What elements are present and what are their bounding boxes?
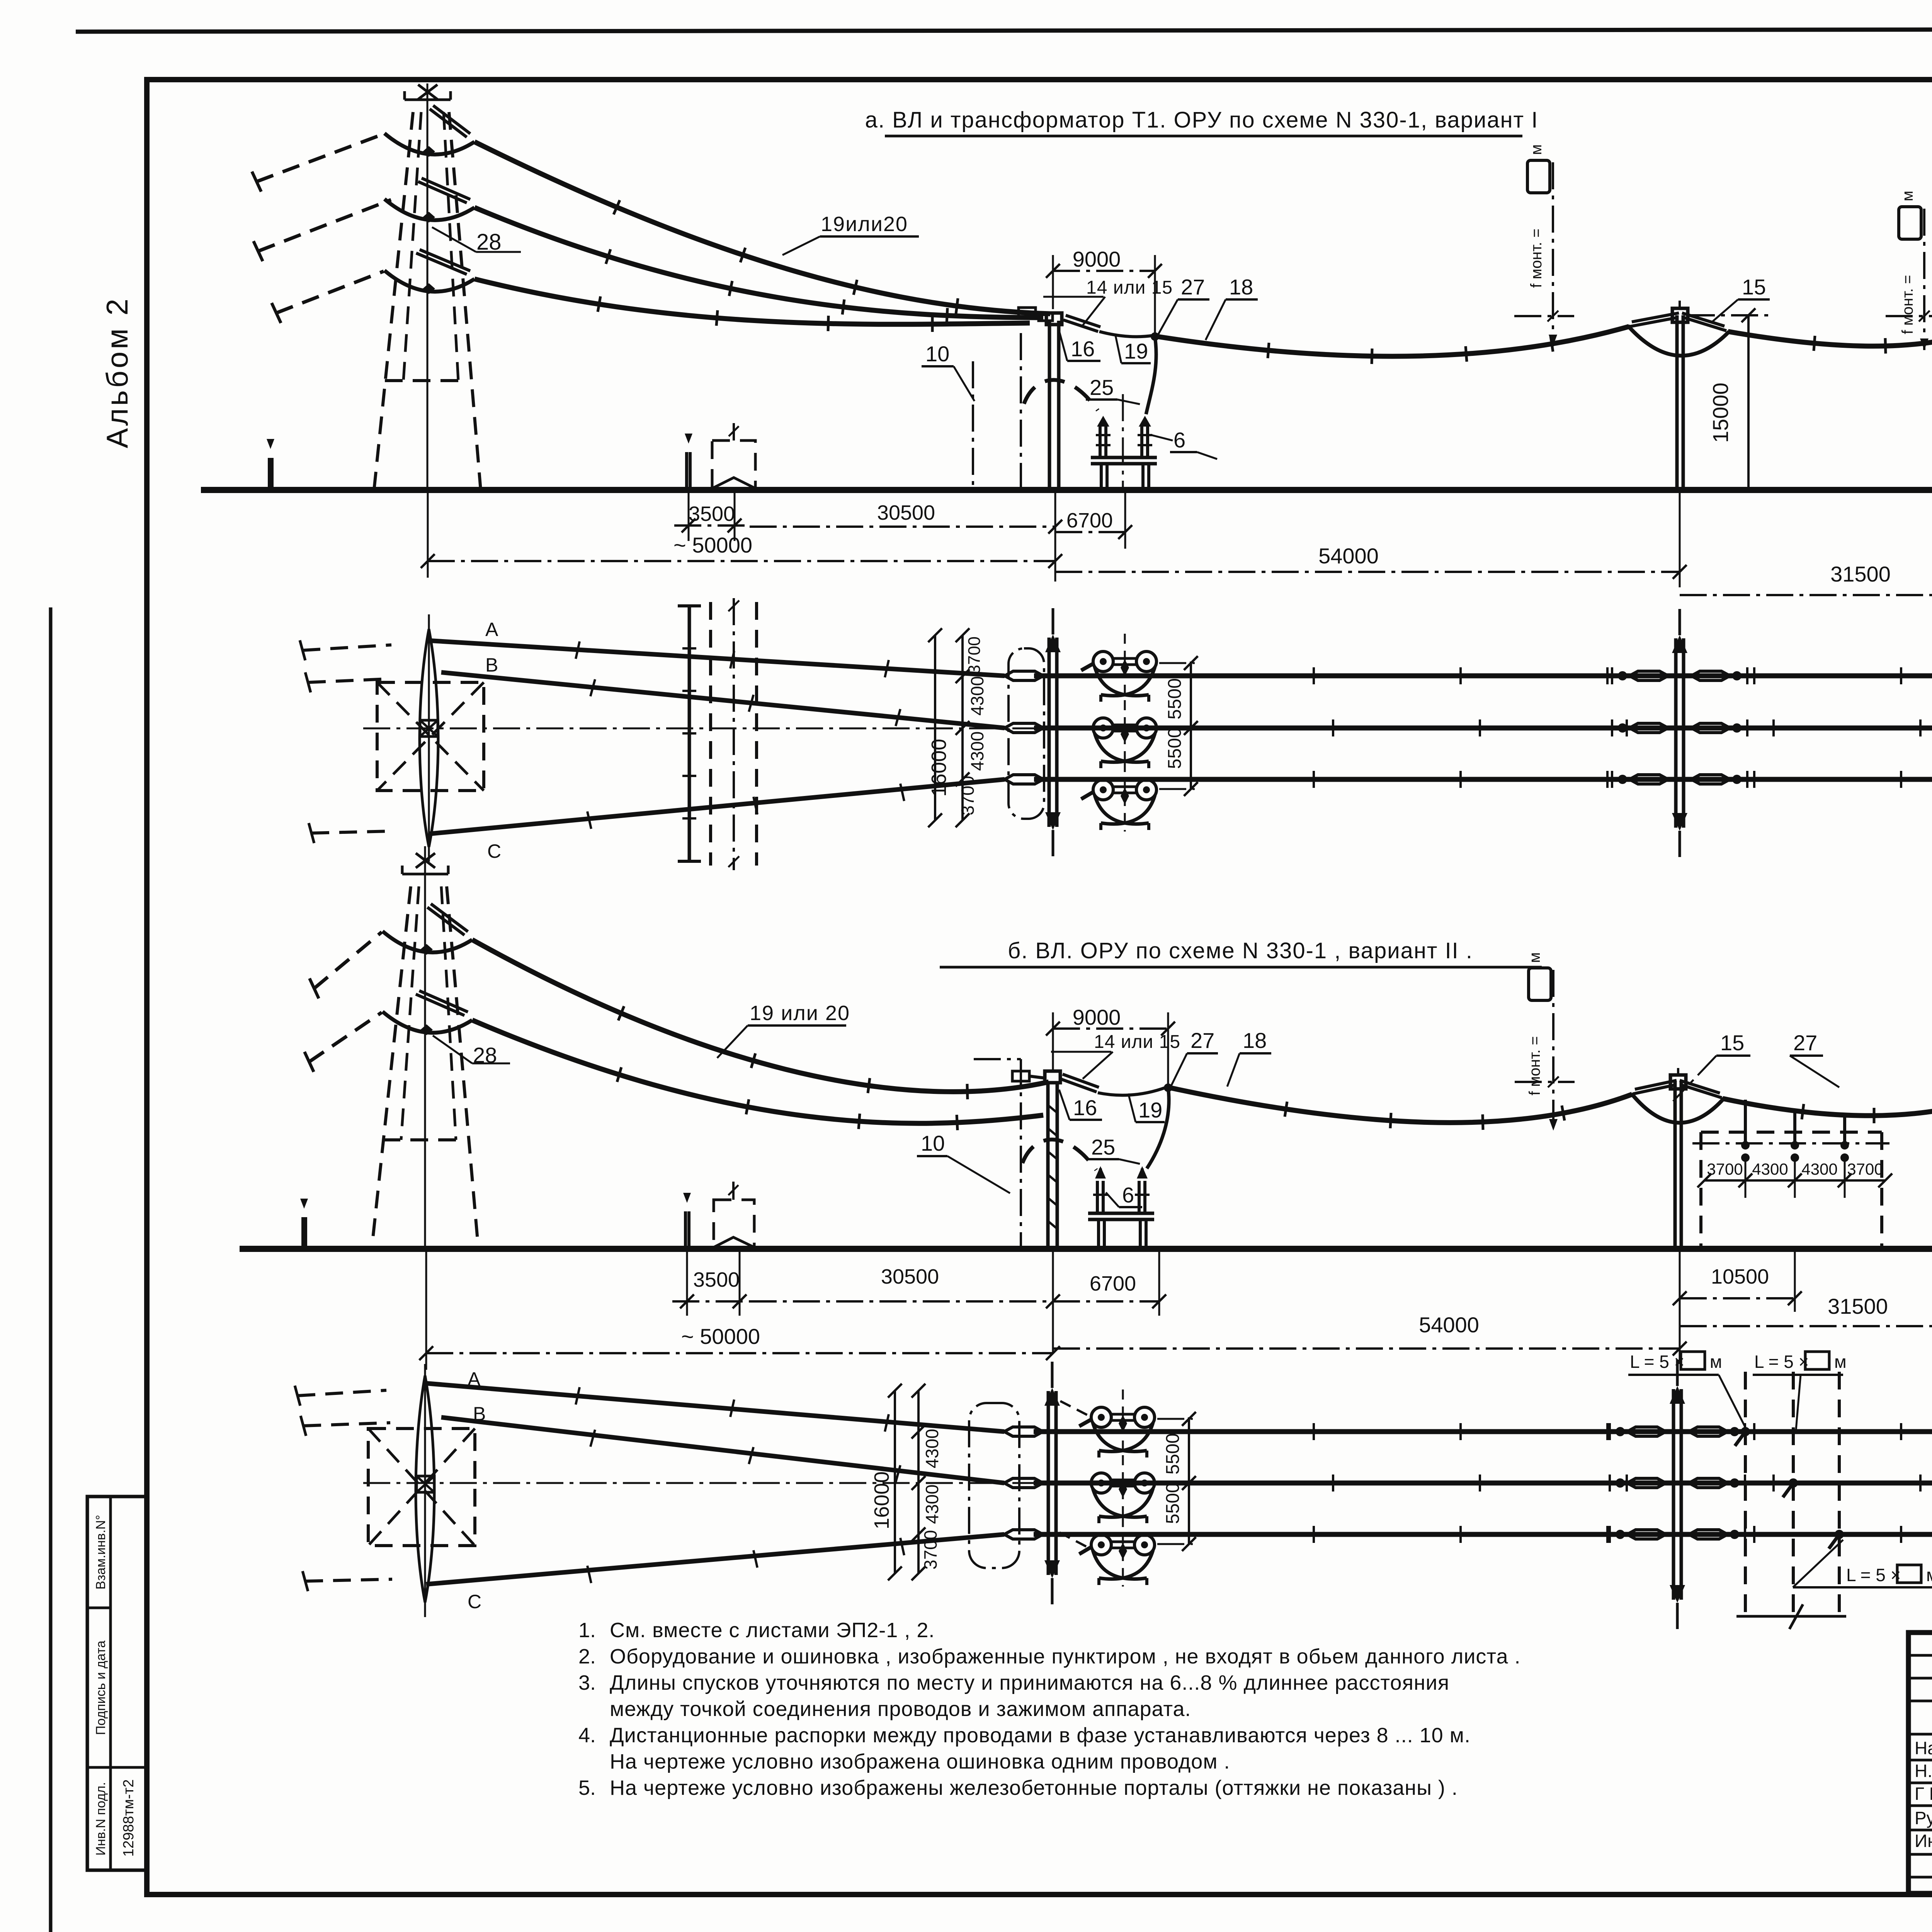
phase C wire tower to portal, plan a <box>429 779 1005 834</box>
bus conductor middle to right portal, profile b <box>1723 1097 1932 1123</box>
conductor phase 2, tower to portal, profile a <box>474 207 1043 323</box>
svg-text:f монт. =: f монт. = <box>1526 1036 1543 1095</box>
tower crossarm with insulator garland, level y=515 <box>384 178 474 223</box>
apparatus pair with earth blades, phase B plan b <box>1091 1455 1155 1525</box>
svg-text:L = 5 ×: L = 5 × <box>1754 1352 1809 1372</box>
dashed jumper loop 25 at portal 1 <box>1024 380 1098 410</box>
svg-text:5500: 5500 <box>1163 1433 1183 1475</box>
dropper 27 from bus tie to apparatus, profile a <box>1146 337 1156 414</box>
svg-text:9000: 9000 <box>1073 1005 1121 1029</box>
svg-text:19: 19 <box>1138 1098 1162 1122</box>
dimension 54000, profile a <box>1055 490 1687 587</box>
tap connection phase A plan b <box>1735 1427 1750 1446</box>
dropper to disconnector row 1, profile b <box>1741 1100 1750 1162</box>
album label: Альбом 2 (rotated) <box>100 296 134 448</box>
tower crossarm with insulator garland, level y=700 <box>384 250 474 294</box>
tap connection phase B plan b <box>1783 1478 1798 1497</box>
svg-text:18: 18 <box>1229 275 1253 299</box>
strain insulator phase B before portal plan a <box>1005 723 1043 733</box>
svg-text:4.: 4. <box>578 1724 596 1747</box>
dimension chain 3700/4300/4300/3700, profile b <box>1697 1158 1892 1198</box>
label 19 with leader <box>1115 334 1151 363</box>
dashed incoming span phase C plan b <box>303 1571 392 1591</box>
dimension 30500, profile a <box>750 501 1062 534</box>
phase label В plan b <box>473 1403 486 1425</box>
title block signature row: Рук гр. Карпов <box>1915 1808 1932 1828</box>
bus conductor 18, portal 1 bay to middle portal <box>1155 327 1629 364</box>
junction at bus tie point, profile a <box>1151 332 1159 341</box>
dashed span stub upper-left 1 <box>252 134 383 192</box>
svg-text:Рук гр.: Рук гр. <box>1915 1808 1932 1828</box>
svg-text:3500: 3500 <box>693 1268 740 1291</box>
phase A wire tower to portal, plan a <box>430 641 1005 677</box>
dashed incoming span phase A plan b <box>295 1386 386 1406</box>
jumper hook to apparatus phase C plan a <box>1081 791 1094 799</box>
strain insulators before portal plan b <box>1004 1427 1043 1539</box>
phase C wire tower to portal, plan b <box>426 1534 1004 1584</box>
dashed incoming span phase B plan a <box>305 672 388 692</box>
svg-text:м: м <box>1926 1565 1932 1585</box>
bus conductor 18, portal 1 to middle portal, profile b <box>1168 1087 1632 1130</box>
svg-text:б. ВЛ. ОРУ по схеме N 3: б. ВЛ. ОРУ по схеме N 330-1 , вариант II… <box>1008 938 1473 963</box>
apparatus pair with earth blades, phase C plan b <box>1091 1517 1155 1587</box>
middle portal traverse bar plan a <box>1672 609 1687 857</box>
svg-text:Подпись и дата: Подпись и дата <box>94 1641 108 1735</box>
label 18 with leader <box>1206 275 1258 340</box>
strip label Взам.инв.№ (rotated) <box>94 1515 108 1589</box>
dimension 10500, profile b <box>1673 1249 1802 1312</box>
note line 2 <box>578 1645 1521 1668</box>
anchor wall in plan a <box>678 606 701 861</box>
svg-text:Дистанционные распорки межд: Дистанционные распорки между проводами в… <box>610 1724 1471 1747</box>
strain insulator phase C before portal plan a <box>1005 775 1043 784</box>
jumper wire 19 from insulator to bus tie <box>1099 332 1154 337</box>
label 27 with leader, profile b <box>1171 1028 1218 1087</box>
label 14 или 15 with leader <box>1043 277 1173 325</box>
svg-text:3700: 3700 <box>1847 1160 1883 1178</box>
label 28 with leader <box>432 227 521 255</box>
inventory number 12988тм-т2 (rotated) <box>121 1779 137 1857</box>
dashed foundation box near wall, profile a <box>712 423 755 490</box>
svg-text:м: м <box>1710 1352 1722 1372</box>
jumper hook to apparatus phase A plan b <box>1079 1419 1092 1426</box>
jumper hook to apparatus phase A plan a <box>1081 663 1094 670</box>
svg-text:28: 28 <box>476 230 502 255</box>
svg-text:4300: 4300 <box>967 731 987 771</box>
label 27 with leader <box>1158 275 1209 335</box>
note line 3 <box>578 1671 1449 1694</box>
dropper to disconnector row 2, profile b <box>1791 1111 1799 1162</box>
phase A wire tower to portal, plan b <box>426 1383 1004 1432</box>
svg-text:15000: 15000 <box>1708 383 1733 443</box>
dropper to disconnector row 3, profile b <box>1840 1116 1849 1162</box>
phase A busbar run plan a <box>1034 667 1932 684</box>
svg-text:10: 10 <box>921 1131 945 1155</box>
svg-text:54000: 54000 <box>1318 544 1379 568</box>
svg-text:Инженер: Инженер <box>1915 1831 1932 1851</box>
disconnector row marker 1 plan b (dashed) <box>1744 1372 1747 1616</box>
svg-text:м: м <box>1526 952 1543 963</box>
svg-text:1.: 1. <box>578 1619 596 1642</box>
dashed jumper loop, profile b <box>1022 1139 1096 1170</box>
row end bar plan b <box>1736 1604 1846 1629</box>
svg-text:5500: 5500 <box>1163 1483 1183 1524</box>
disconnector row marker 2 plan b (dashed) <box>1792 1372 1795 1616</box>
apparatus 6 insulator columns, profile a <box>1091 416 1157 490</box>
svg-text:С: С <box>468 1591 481 1612</box>
ground line of profile b <box>240 1246 1932 1252</box>
svg-text:16000: 16000 <box>927 739 951 797</box>
svg-text:3700: 3700 <box>1707 1160 1743 1178</box>
note line 1 <box>578 1619 935 1642</box>
svg-text:2.: 2. <box>578 1645 596 1668</box>
dimension 6700, profile a <box>1055 490 1132 582</box>
title block grid <box>1908 1633 1932 1893</box>
svg-text:f монт. =: f монт. = <box>1528 228 1545 288</box>
svg-text:3500: 3500 <box>689 502 735 526</box>
insulator garland arc at middle portal, profile b <box>1631 1068 1724 1123</box>
phase C busbar run plan b <box>1034 1526 1932 1543</box>
tower footprint in plan a <box>377 614 484 862</box>
svg-text:м: м <box>1834 1352 1847 1372</box>
montage sag marker f_монт 1, profile b <box>1515 952 1575 1131</box>
vertical axis line at portal 1 left <box>1020 333 1022 490</box>
svg-text:16: 16 <box>1073 1095 1097 1120</box>
dashed span stub upper-left 2 <box>253 200 391 261</box>
svg-text:25: 25 <box>1091 1135 1115 1159</box>
svg-text:Нач. О: Нач. О <box>1915 1738 1932 1758</box>
phase B busbar run plan a <box>1034 719 1932 736</box>
svg-text:6700: 6700 <box>1090 1272 1136 1295</box>
bus support insulator string on portal 1, profile b <box>1060 1074 1099 1092</box>
portal zone outline (dash-dot rounded rect) plan b <box>969 1403 1019 1568</box>
svg-text:25: 25 <box>1090 375 1114 400</box>
svg-text:Оборудование и ошиновка , из: Оборудование и ошиновка , изображенные п… <box>610 1645 1521 1668</box>
dimension ~50000, profile b <box>419 1249 1060 1370</box>
dimension 54000, profile b <box>1053 1249 1687 1364</box>
anchor tower of overhead line, profile b <box>372 846 478 1249</box>
portal 1 traverse bar plan a <box>1045 608 1061 856</box>
dimension 3500, profile a <box>674 490 750 541</box>
svg-text:6: 6 <box>1122 1183 1134 1207</box>
apparatus pair with earth blades, phase A plan b <box>1091 1389 1155 1459</box>
svg-text:14 или 15: 14 или 15 <box>1094 1032 1180 1052</box>
jumper hook to apparatus phase C plan b <box>1079 1546 1092 1554</box>
svg-text:5500: 5500 <box>1165 728 1185 769</box>
label 16 with leader, profile b <box>1059 1090 1102 1120</box>
svg-text:5500: 5500 <box>1165 678 1185 719</box>
svg-text:между точкой соединения про: между точкой соединения проводов и зажим… <box>610 1697 1191 1721</box>
ground line of profile a <box>201 487 1932 493</box>
dropper 27 to apparatus, profile b <box>1147 1087 1169 1168</box>
row axis (dash-dot) of plan a <box>363 728 1932 730</box>
svg-text:На чертеже условно изображе: На чертеже условно изображена ошиновка о… <box>610 1750 1230 1773</box>
dashed incoming span phase B plan b <box>301 1416 390 1436</box>
dimension 9000, profile b <box>1046 1005 1175 1086</box>
svg-text:6700: 6700 <box>1066 509 1113 532</box>
svg-text:9000: 9000 <box>1073 247 1121 271</box>
apparatus pair with earth blades, phase C plan a <box>1093 762 1156 832</box>
label 25 with leader, profile b <box>1087 1135 1140 1164</box>
label 25 with leader <box>1086 375 1140 404</box>
svg-text:Н.контр.: Н.контр. <box>1915 1761 1932 1781</box>
middle portal column, profile b <box>1670 1075 1686 1249</box>
svg-text:30500: 30500 <box>881 1265 939 1288</box>
phase label А plan a <box>485 619 498 640</box>
title block signature row: Нач. О Роменский <box>1915 1738 1932 1758</box>
tension hardware at portal 1, profile b <box>1012 1071 1045 1081</box>
svg-text:См. вместе с листами ЭП2-: См. вместе с листами ЭП2-1 , 2. <box>610 1619 935 1642</box>
svg-text:16000: 16000 <box>870 1471 893 1529</box>
title of view a <box>865 107 1539 136</box>
middle portal traverse bar plan b <box>1670 1360 1685 1629</box>
svg-text:4300: 4300 <box>922 1429 942 1468</box>
label 19 with leader, profile b <box>1128 1094 1165 1122</box>
svg-text:31500: 31500 <box>1828 1294 1888 1318</box>
conductor phase 2, tower to portal, profile b <box>472 1020 1043 1130</box>
bus support insulator string 14или15 on portal 1 <box>1063 315 1100 332</box>
svg-text:19 или 20: 19 или 20 <box>750 1002 850 1025</box>
svg-text:Длины спусков уточняются по: Длины спусков уточняются по месту и прин… <box>610 1671 1449 1694</box>
portal 1 traverse bar plan b <box>1044 1362 1060 1604</box>
svg-text:f монт. =: f монт. = <box>1899 275 1916 334</box>
svg-text:4300: 4300 <box>1752 1160 1788 1178</box>
tower crossarm with garland, profile b, level y=2410 <box>383 904 472 955</box>
svg-text:15: 15 <box>1720 1031 1744 1055</box>
svg-text:А: А <box>485 619 498 640</box>
dimension chain 3700/4300/4300/3700 plan a <box>956 628 987 827</box>
dimension 31500, profile a <box>1680 490 1932 611</box>
montage sag marker f_монт 1, profile a <box>1514 145 1574 347</box>
svg-text:12988тм-т2: 12988тм-т2 <box>121 1779 137 1857</box>
svg-text:10500: 10500 <box>1711 1265 1769 1288</box>
svg-text:3700: 3700 <box>957 776 978 815</box>
tower crossarm with insulator garland, level y=345 <box>384 105 474 157</box>
phase B busbar run plan b <box>1034 1475 1932 1492</box>
svg-text:м: м <box>1899 191 1916 202</box>
paper top edge line <box>76 29 1932 32</box>
anchor wall stub, profile b <box>683 1193 691 1249</box>
note line 4 <box>610 1697 1191 1721</box>
title block signature row: Г И П Фомин <box>1915 1784 1932 1804</box>
label 6 with leader, profile b <box>1106 1183 1142 1207</box>
anchor wall stub 3500, profile a <box>685 434 692 490</box>
dimension chain 4300/4300/3700 plan b <box>912 1384 942 1580</box>
label 28 with leader, profile b <box>433 1036 510 1067</box>
label 16 with leader <box>1059 331 1100 361</box>
conductor phase 3, tower to portal, profile a <box>474 279 1030 332</box>
line axis 10 (dash-dot) at approach, profile a <box>972 361 974 490</box>
label 14 или 15 with leader, profile b <box>1051 1032 1180 1079</box>
svg-text:18: 18 <box>1243 1028 1267 1053</box>
tap connection phase C plan b <box>1829 1530 1844 1549</box>
paper left edge line <box>49 607 53 1932</box>
svg-text:~ 50000: ~ 50000 <box>673 533 752 557</box>
strain insulators around middle portal plan b <box>1610 1423 1745 1543</box>
note line 7 <box>578 1776 1458 1799</box>
svg-text:10: 10 <box>925 342 949 366</box>
anchor tower of overhead line, profile a <box>374 83 481 490</box>
svg-text:м: м <box>1528 145 1545 155</box>
svg-text:16: 16 <box>1071 337 1095 361</box>
svg-text:15: 15 <box>1742 275 1766 299</box>
phase C busbar run plan a <box>1034 771 1932 788</box>
dashed incoming span phase C plan a <box>309 823 390 843</box>
dashed span stub upper-left 2, profile b <box>304 1012 382 1072</box>
phase A busbar run plan b <box>1034 1423 1932 1440</box>
label 19 или 20 with leader, profile b <box>717 1002 850 1058</box>
dimension 16000 at portal 1, plan a <box>927 628 951 827</box>
phase spacing dimension 5500/5500 plan b <box>1157 1412 1196 1551</box>
conductor phase 1, tower to portal, profile b <box>472 940 1049 1099</box>
vertical axis line left of portal 1, profile b <box>974 1059 1021 1249</box>
bus conductor middle to right portal, profile a <box>1728 327 1932 354</box>
strain insulator phase A before portal plan a <box>1005 671 1043 680</box>
label 18 with leader, profile b <box>1227 1028 1271 1087</box>
title block signature row: Н.контр. Ломоносова <box>1915 1761 1932 1781</box>
svg-text:~ 50000: ~ 50000 <box>681 1324 760 1349</box>
stub marker at ground start, profile b <box>300 1199 308 1249</box>
svg-text:3700: 3700 <box>965 636 984 674</box>
svg-text:30500: 30500 <box>877 501 935 524</box>
svg-text:27: 27 <box>1190 1028 1214 1053</box>
middle portal column, profile a <box>1672 308 1688 490</box>
phase B wire tower to portal, plan b <box>441 1417 1004 1483</box>
svg-text:3700: 3700 <box>920 1530 940 1570</box>
svg-text:а. ВЛ и трансформатор Т1.: а. ВЛ и трансформатор Т1. ОРУ по схеме N… <box>865 107 1539 133</box>
tower crossarm with garland, profile b, level y=2618 <box>383 991 472 1035</box>
svg-text:14 или 15: 14 или 15 <box>1086 277 1173 298</box>
apparatus 6 columns, profile b <box>1088 1166 1154 1249</box>
dashed leader to apparatus phase A plan b <box>1060 1401 1088 1415</box>
note line 5 <box>578 1724 1471 1747</box>
label 19или20 with leader <box>782 213 919 255</box>
dashed foundation box, profile b <box>714 1182 754 1249</box>
svg-text:31500: 31500 <box>1830 562 1891 586</box>
svg-text:3.: 3. <box>578 1671 596 1694</box>
svg-text:С: С <box>487 840 501 862</box>
svg-text:На чертеже условно изображе: На чертеже условно изображены железобето… <box>610 1776 1458 1799</box>
dashed equipment zone box, profile b <box>1692 1132 1889 1249</box>
tower footprint in plan b <box>368 1364 475 1617</box>
jumper wire 19, profile b <box>1098 1087 1166 1095</box>
svg-text:6: 6 <box>1173 428 1185 452</box>
dimension 16000 at portal 1, plan b <box>870 1384 902 1580</box>
apparatus pair with earth blades, phase B plan a <box>1093 700 1156 770</box>
phase label А plan b <box>468 1368 481 1390</box>
conductor phase 1, tower to portal, profile a <box>474 142 1050 314</box>
junction at bus tie point, profile b <box>1164 1083 1172 1092</box>
portal 1 column, profile a <box>1046 313 1062 490</box>
disconnector row marker 3 plan b (dashed) <box>1838 1372 1841 1616</box>
label 10 with leader <box>922 342 975 401</box>
axis of foundation strip plan a <box>728 598 739 870</box>
strain insulators around middle portal plan a <box>1612 667 1747 788</box>
portal zone outline (dash-dot rounded rect) plan a <box>1009 648 1044 819</box>
label 6 with leader <box>1151 428 1217 459</box>
label 15 middle with leader <box>1713 275 1770 321</box>
dashed incoming span phase A plan a <box>300 640 391 660</box>
svg-text:54000: 54000 <box>1419 1313 1479 1337</box>
svg-text:27: 27 <box>1793 1031 1817 1055</box>
dashed span stub upper-left 3 <box>272 271 384 323</box>
dimension 31500, profile b <box>1680 1249 1932 1341</box>
svg-text:19или20: 19или20 <box>821 213 908 236</box>
vertical dimension 15000, profile a <box>1688 308 1770 490</box>
dimension 3500, profile b <box>672 1249 750 1316</box>
montage sag marker f_монт 2, profile a <box>1886 191 1932 350</box>
stub marker at ground start, profile a <box>267 439 274 490</box>
phase label С plan b <box>468 1591 481 1612</box>
svg-text:Взам.инв.N°: Взам.инв.N° <box>94 1515 108 1589</box>
svg-text:В: В <box>485 654 498 676</box>
dashed leader to apparatus phase C plan b <box>1060 1532 1089 1548</box>
title block outer frame <box>1908 1633 1932 1893</box>
apparatus pair with earth blades, phase A plan a <box>1093 634 1156 703</box>
label L=5x[] м first, profile b <box>1628 1352 1747 1430</box>
svg-text:L = 5 ×: L = 5 × <box>1846 1565 1901 1585</box>
label 10 with leader, profile b <box>917 1131 1010 1193</box>
svg-text:Г И П: Г И П <box>1915 1784 1932 1804</box>
apparatus bay axis, profile a <box>1122 394 1124 490</box>
dashed span stub upper-left 1, profile b <box>310 932 382 998</box>
left margin stamp table <box>87 1497 147 1870</box>
phase label С plan a <box>487 840 501 862</box>
row axis (dash-dot) of plan b <box>363 1482 1932 1484</box>
svg-text:27: 27 <box>1181 275 1205 299</box>
strip label Инв.N подл. (rotated) <box>94 1782 108 1855</box>
note line 6 <box>610 1750 1230 1773</box>
svg-text:Инв.N подл.: Инв.N подл. <box>94 1782 108 1855</box>
svg-text:19: 19 <box>1124 339 1148 363</box>
label L=5x[] м third, plan b <box>1793 1540 1932 1587</box>
dimension 6700, profile b <box>1053 1249 1166 1352</box>
label 27 right with leader, profile b <box>1790 1031 1839 1087</box>
dashed foundation strip in plan a <box>711 602 757 866</box>
svg-text:4300: 4300 <box>967 676 987 716</box>
title of view b <box>940 938 1542 967</box>
tension clamp hardware at portal 1 <box>1019 308 1053 321</box>
dimension ~50000, profile a <box>421 490 1062 578</box>
label 15 with leader, profile b <box>1673 1031 1750 1101</box>
insulator garland arc at middle portal, profile a <box>1628 301 1729 355</box>
dimension 9000 between portal 1 and bus tie <box>1046 247 1162 335</box>
svg-text:4300: 4300 <box>922 1485 942 1524</box>
label L=5x[] м second, profile b <box>1753 1352 1847 1430</box>
phase label В plan a <box>485 654 498 676</box>
title block signature row: Инженер Ломоносова <box>1915 1831 1932 1851</box>
phase spacing dimension 5500/5500 plan a <box>1159 656 1198 796</box>
svg-text:5.: 5. <box>578 1776 596 1799</box>
svg-text:Альбом 2: Альбом 2 <box>100 296 134 448</box>
phase B wire tower to portal, plan a <box>441 672 1005 728</box>
svg-text:4300: 4300 <box>1801 1160 1837 1178</box>
dimension 30500, profile b <box>750 1265 1060 1308</box>
portal 1 column, profile b <box>1045 1071 1060 1249</box>
strip label Подпись и дата (rotated) <box>94 1641 108 1735</box>
